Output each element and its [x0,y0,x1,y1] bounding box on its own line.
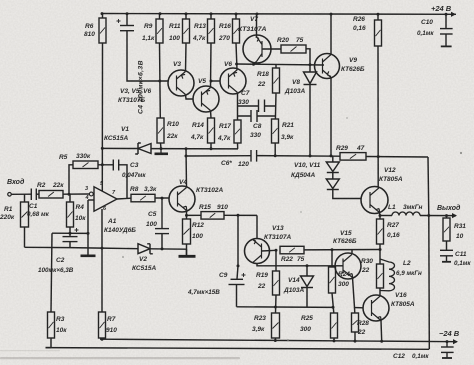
junction rail-R9 [159,12,162,15]
wire R7 top column [101,248,103,312]
capacitor C7 [259,100,265,113]
wire C7 line [238,105,277,107]
junction V13 base node [275,249,278,252]
wire V8 top lead [309,65,311,72]
resistor R18 [273,68,280,93]
junction V- node [101,247,104,250]
wire C9 top lead [237,266,238,279]
wire R28 top lead [354,308,356,314]
wire V2 line to R12 ground [186,249,188,255]
inductor L2 [380,259,395,291]
resistor R2 [39,191,63,199]
resistor R10 [157,118,164,143]
wire node to R3 column [51,233,52,312]
wire R3 bottom lead [46,338,52,348]
wire V15 emitter to V16 base [353,278,363,308]
resistor R23 [272,313,280,338]
capacitor C11 [440,250,453,261]
node -24V rail arrow [453,339,458,344]
wire R9 bottom to R10 top [159,43,162,118]
wire C1 to R2 [36,193,39,195]
wire R17 bottom lead [237,143,239,149]
junction rail-C10 [445,13,448,16]
wire C9 bottom to divider line [236,285,238,307]
resistor R9 [156,19,163,43]
wire C4 bottom to V3 base [127,31,168,81]
wire R24 top lead [331,250,333,267]
wire R4 bottom lead [69,227,71,233]
wire op-amp noninv input stub [88,199,94,201]
wire V13 base to R22 node [262,249,277,252]
diode V14 [301,276,314,288]
junction bias/V9 emitter [330,154,333,157]
wire C8 line [238,115,277,117]
wire -24V rail [100,339,457,342]
resistor R5 [73,161,98,169]
junction rail-R7 [101,338,104,341]
wire R27 bottom to node [379,244,381,264]
wire emitter node to R15 [187,214,202,216]
junction input node [68,193,71,196]
node +24V rail arrow [451,12,456,17]
wire R2 to op-amp inverting input [63,193,89,195]
wire V4 emitter to node [186,211,188,216]
wire V8 bottom to bias line [309,85,311,156]
wire R6 bottom to op-amp supply [101,43,103,192]
junction output node left [379,214,382,217]
junction rail-R16 [235,13,238,16]
capacitor C4 [117,19,135,31]
capacitor C10 [440,29,453,47]
resistor R3 [48,312,55,338]
wire output common line [46,348,430,350]
junction V7 collector [252,63,255,66]
junction rail-C4 [126,12,129,15]
wire V6 base tap [211,80,220,82]
wire V9 base line [237,64,324,65]
junction V14 tap [306,264,309,267]
node input terminal [8,193,12,197]
wire C6 bias line [186,156,428,157]
junction supply column / feedback line [101,163,104,166]
junction R4 bottom node [69,232,72,235]
resistor R11 [183,19,190,43]
wire +24V supply rail [101,13,456,16]
wire feedback line [98,165,127,199]
wire R10 bottom lead [160,143,163,149]
resistor R27 [377,219,384,244]
wire R25 bottom lead [333,338,335,341]
capacitor C1 [31,189,36,201]
junction rail-R6 [101,12,104,15]
junction rail-V9 [330,13,333,16]
inductor L1 [392,212,420,216]
junction V8 top / base line [309,63,312,66]
junction zener line / V4 collector column [185,147,188,150]
wire R20 right to V8 column [306,49,310,65]
wire V16 emitter to -24 rail [380,321,383,342]
wire op-amp V- pin column [101,209,103,248]
wire output node to L1 [380,215,392,217]
wire L1 to output terminal [420,215,456,217]
wire R29 to output column [427,157,430,216]
wire V7 collector [254,62,257,65]
wire R28 bottom lead [354,332,356,341]
junction rail-R28 [354,340,357,343]
wire op-amp pin4 column [87,200,89,255]
resistor R19 [273,271,280,295]
ground below R10 [155,149,169,154]
wire R4/C2 node line [52,232,88,234]
junction zener line / R14 [210,147,213,150]
resistor R8 [131,194,155,202]
capacitor C5 [155,198,169,234]
wire V14 top lead [306,266,308,276]
junction output/R29 column [427,214,430,217]
resistor R31 [443,218,450,241]
wire C5 bottom lead [161,234,163,249]
wire R1 top lead [24,194,26,202]
wire diode chain mid [332,173,334,180]
junction driver line / R30 node [379,248,382,251]
wire R16 to V6 emitter [236,43,237,70]
diode V11 [326,179,339,190]
wire R14 bottom lead [210,143,212,149]
transistor V3 [168,70,194,96]
wire R30 bottom to V16 collector [379,288,381,296]
wire diode chain top [332,156,334,162]
wire zener reference line [102,147,238,150]
transistor V13 [245,239,270,264]
junction divider/R19-R23 [274,306,277,309]
wire R19 top lead [275,250,277,271]
wire R18 bottom to R21 top [274,93,277,119]
junction V5 emitter / V6 base [210,80,213,83]
ground below R12 [179,255,196,258]
junction rail-V7 [256,13,259,16]
wire R9 top lead [159,14,161,19]
diode V10 [326,162,339,173]
junction rail-R25 [333,339,336,342]
junction rail-V16 [380,340,383,343]
resistor R15 [201,212,224,220]
wire V14 bottom lead [306,288,308,308]
transistor V15 [335,253,361,279]
resistor R21 [272,119,279,143]
wire R15 right lead [224,214,257,216]
wire C4 top lead [126,14,128,25]
junction rail-R13 [210,12,213,15]
junction V13 collector / C9 [237,264,240,267]
op-amp A1 [89,187,117,211]
resistor R20 [281,45,306,53]
junction bias/R21 [274,154,277,157]
wire V6 collector down [237,93,239,121]
wire V12 emitter to output node [379,213,382,216]
resistor R13 [208,19,215,43]
resistor R26 [375,20,382,46]
wire R5 left lead down to input node [69,165,73,194]
junction V6 emitter column / V9 base line [235,63,238,66]
junction output/R31 [445,214,448,217]
wire V4 collector column [185,149,188,188]
wire V15 base lead [336,265,343,267]
wire V13 emitter column [256,215,258,238]
wire R26 bottom to V12 collector [377,46,379,188]
wire divider line [237,306,335,309]
junction supply column / zener line [101,147,104,150]
resistor R30 [377,264,384,288]
capacitor C9 [229,273,246,285]
wire V5 collector to R14 [210,111,213,119]
junction rail-R11 [185,12,188,15]
capacitor C8 [251,110,257,122]
wire V5 emitter to R13 [210,43,213,88]
wire R7 bottom lead [101,338,103,339]
wire output column to common [428,216,431,350]
wire R4 top lead [69,194,71,202]
wire R1 bottom to common line [24,227,26,247]
junction bias/V8 [309,154,312,157]
resistor R29 [340,153,366,161]
wire R11 top lead [185,14,187,19]
wire R27 top lead [379,216,381,220]
junction pin4 node [87,232,90,235]
wire input to C1 [11,193,31,195]
ground op-amp pin4 [81,255,96,258]
wire R6 top lead [102,14,104,18]
resistor R17 [234,120,241,143]
junction C5 tap [161,197,164,200]
node output arrow [452,213,457,218]
zener diode V1 [135,143,151,154]
junction rail-C12 [446,340,449,343]
wire R8 to V4 base [155,197,169,199]
wire V9 collector to rail [330,14,332,54]
wire R26 top lead [377,14,379,20]
wire op-amp output [117,197,131,200]
wire R24 bottom / R25 top [332,293,334,313]
wire R16 top lead [235,14,237,19]
decorative [0,117,462,359]
zener diode V2 [138,244,153,254]
resistor R12 [183,219,191,244]
resistor R1 [21,202,29,227]
junction zener line / R10 [160,147,163,150]
wire diode chain to V12 base [333,190,361,199]
wire V9 emitter down [330,78,332,156]
wire R12 top lead [186,215,188,219]
wire R12 bottom lead [186,244,188,255]
junction C4/R9-R10 column [158,80,161,83]
junction R24 tap [331,248,334,251]
wire V15 collector stub [351,250,353,255]
junction V4 emitter node [185,214,188,217]
wire R22 to V15 area [304,249,380,251]
wire R19 bottom / R23 top [275,295,278,313]
transistor V4 [169,186,195,212]
resistor R25 [331,313,338,338]
capacitor C12 [441,342,454,358]
transistor V5 [193,86,219,112]
wire common line to V2 [25,247,187,249]
resistor R6 [99,18,106,43]
junction bias line start [185,155,188,158]
wire V7 base to R20 [262,48,281,50]
capacitor C2 [63,228,79,242]
transistor V6 [220,68,246,94]
transistor V12 [361,187,388,214]
resistor R4 [67,202,74,227]
wire R21 bottom lead [274,143,276,156]
wire V3 emitter to R11 [185,43,188,72]
junction R15/C9 column [237,214,240,217]
resistor R24 [329,267,336,293]
transistor V9 [315,54,340,79]
junction R26 column / bias line [377,155,380,158]
junction rail-R26 [377,13,380,16]
wire R31 top lead [446,216,448,218]
wire C2 bottom lead [69,242,71,248]
resistor R16 [233,19,240,43]
wire R31 to C11 [446,241,448,250]
wire V3 collector to V5 base [186,95,194,100]
resistor R14 [208,118,215,143]
wire R18 top lead [275,65,277,69]
resistor R22 [280,246,304,254]
wire R23 bottom lead [274,338,276,341]
diode V8 [304,72,317,85]
wire V7 emitter to rail [256,14,258,37]
wire R13 top lead [210,14,212,19]
wire C10 top lead [445,14,447,28]
junction divider/R24-R25 [332,306,335,309]
capacitor C3 [113,160,118,171]
transistor V16 [363,295,389,321]
resistor R28 [352,313,359,332]
wire V13 collector line [257,264,336,266]
capacitor C6 [251,150,257,162]
junction C5/common [161,247,164,250]
junction rail-R23 [274,339,277,342]
transistor V7 [243,35,271,63]
resistor R7 [99,312,106,338]
wire R15 column to V13 collector [237,215,239,266]
